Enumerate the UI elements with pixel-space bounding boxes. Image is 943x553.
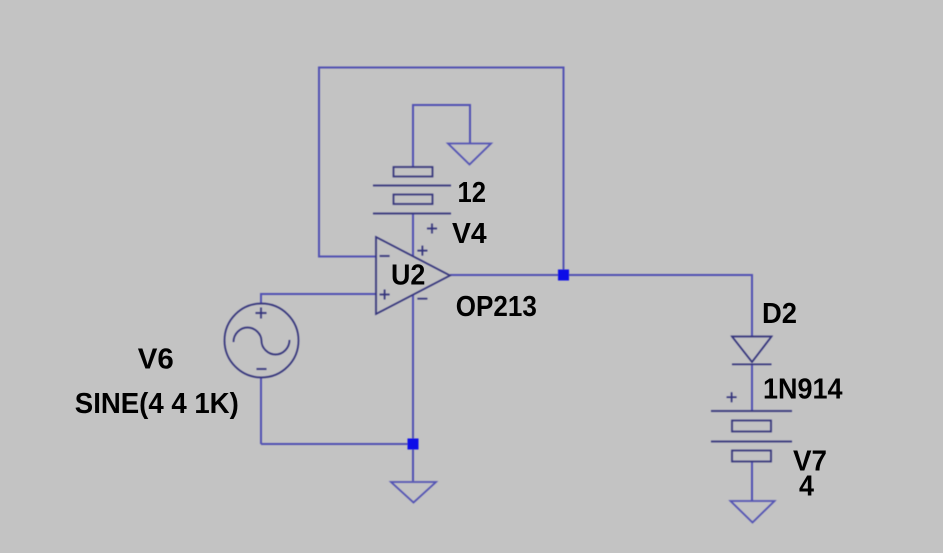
voltage source V6 minus mark xyxy=(257,368,267,370)
op-amp U2 triangle xyxy=(376,237,450,314)
wire ground stem top xyxy=(469,104,471,144)
wire V4 top vertical xyxy=(412,105,414,167)
wire bottom horizontal xyxy=(261,443,413,445)
svg-text:1N914: 1N914 xyxy=(763,373,843,405)
svg-text:D2: D2 xyxy=(762,298,797,330)
svg-text:U2: U2 xyxy=(391,259,425,291)
battery V7 plate rect 2 (negative) xyxy=(732,451,771,462)
wire inverting input xyxy=(318,256,376,258)
ground (bottom middle) xyxy=(391,482,436,503)
junction at bottom ground node xyxy=(408,439,419,450)
battery V7 plus mark xyxy=(727,392,737,402)
ground (bottom right, V7) xyxy=(731,501,775,523)
battery V7 long plate 2 xyxy=(711,441,792,443)
wire feedback right vertical xyxy=(563,67,565,276)
diode D2 cathode bar xyxy=(732,363,772,365)
svg-text:4: 4 xyxy=(799,470,814,502)
wire op-amp V- pin to ground xyxy=(412,295,414,481)
wire feedback top segment xyxy=(319,67,564,69)
wire feedback left vertical xyxy=(318,67,320,257)
wire op-amp V+ pin xyxy=(412,213,414,256)
wire output down to diode xyxy=(751,274,753,336)
wire V6 bottom stem xyxy=(260,378,262,445)
battery V4 long plate 2 (positive) xyxy=(373,213,451,215)
battery V4 top plate (negative) xyxy=(394,167,433,177)
wire non-inverting input xyxy=(261,293,376,295)
wire op-amp output xyxy=(450,274,752,276)
wire V7 to ground xyxy=(751,461,753,501)
battery V4 plus mark xyxy=(427,224,437,234)
op-amp V- pin minus mark xyxy=(417,298,427,300)
battery V4 long plate 1 xyxy=(373,185,451,187)
wire V6 top stem xyxy=(260,293,262,304)
battery V4 middle plate xyxy=(394,195,433,205)
battery V7 plate rect 1 xyxy=(732,421,771,432)
op-amp V+ pin plus mark xyxy=(417,246,427,256)
svg-text:SINE(4 4 1K): SINE(4 4 1K) xyxy=(75,388,239,420)
svg-text:V4: V4 xyxy=(452,218,487,250)
svg-text:V6: V6 xyxy=(138,343,174,375)
ground (top, V4 return) xyxy=(448,144,491,165)
op-amp non-inverting input plus mark xyxy=(380,290,390,300)
voltage source V6 sine wave xyxy=(234,328,290,355)
wire V4 top horizontal xyxy=(412,104,470,106)
battery V7 long plate 1 (positive) xyxy=(711,410,792,412)
voltage source V6 plus mark xyxy=(256,308,267,319)
wire diode to V7 xyxy=(751,365,753,412)
diode D2 triangle xyxy=(732,337,772,363)
svg-text:12: 12 xyxy=(458,177,487,209)
svg-text:OP213: OP213 xyxy=(456,291,537,323)
op-amp inverting input minus mark xyxy=(380,255,390,257)
voltage source V6 circle xyxy=(225,304,299,378)
junction at op-amp output node xyxy=(558,270,569,281)
